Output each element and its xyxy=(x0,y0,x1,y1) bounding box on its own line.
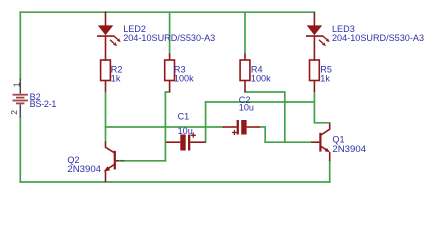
transistor Q2 (mirrored NPN) base bar xyxy=(114,151,116,170)
LED LED3 light arrows xyxy=(319,36,330,46)
wire left rail lower (battery -) xyxy=(19,118,21,183)
transistor Q1 (NPN) base bar xyxy=(319,133,321,152)
wire rail to R3 top xyxy=(169,12,171,53)
resistor R4 xyxy=(240,60,250,81)
transistor Q2 base pin xyxy=(116,160,119,162)
wire rail to R4 top xyxy=(244,12,246,53)
svg-text:100k: 100k xyxy=(174,74,194,84)
wire y=102 line to R5/Q1 collector node xyxy=(206,101,315,103)
svg-text:204-10SURD/S530-A3: 204-10SURD/S530-A3 xyxy=(332,33,424,43)
wire left rail upper (battery +) xyxy=(19,12,21,78)
wire Q2 collector node to C2 left (y=127) xyxy=(106,126,223,128)
wire Q1 emitter to GND rail xyxy=(329,161,331,182)
wire Q2 base run xyxy=(125,160,166,162)
capacitor C1 plus sign xyxy=(191,133,196,138)
wire R3 bottom jog to base vertical xyxy=(165,92,169,161)
transistor Q1 emitter path with arrow xyxy=(321,146,326,149)
LED LED2 light arrows xyxy=(110,36,121,46)
resistor R3 xyxy=(165,60,175,81)
wire R5 bottom drop to Q1 collector xyxy=(314,92,329,123)
transistor Q2 collector path xyxy=(106,142,115,153)
svg-text:BS-2-1: BS-2-1 xyxy=(30,99,57,109)
svg-text:10u: 10u xyxy=(178,126,193,136)
transistor Q2 emitter pin to rail xyxy=(105,172,107,183)
resistor R5 pins xyxy=(313,81,315,93)
svg-text:100k: 100k xyxy=(251,74,271,84)
capacitor C1 xyxy=(166,141,206,143)
transistor Q1 base pin xyxy=(311,141,319,143)
svg-text:C1: C1 xyxy=(178,112,190,122)
battery B2 pin 2 lead xyxy=(19,104,21,117)
capacitor C2 xyxy=(223,126,260,128)
svg-text:2: 2 xyxy=(9,110,19,115)
transistor Q1 emitter pin xyxy=(329,152,331,161)
wire bottom GND rail xyxy=(20,181,329,183)
svg-text:2N3904: 2N3904 xyxy=(332,144,366,155)
wire top V+ rail xyxy=(20,11,314,13)
capacitor C2 plus sign xyxy=(232,130,237,135)
wire C2 right to riser down xyxy=(260,127,266,142)
svg-text:1k: 1k xyxy=(320,74,330,84)
LED LED2 xyxy=(98,12,114,60)
resistor R2 pin bottom xyxy=(105,81,107,92)
wire C1 right riser xyxy=(205,102,207,142)
svg-text:1: 1 xyxy=(12,82,22,87)
resistor R4 pins xyxy=(244,54,246,93)
battery B2 pin 1 lead xyxy=(19,79,21,94)
LED LED3 xyxy=(307,13,323,60)
transistor Q2 emitter path with arrow xyxy=(108,164,114,168)
svg-text:10u: 10u xyxy=(239,102,254,112)
wire R2 bottom to Q2 collector xyxy=(105,92,107,142)
svg-text:1k: 1k xyxy=(111,74,121,84)
wire R4 bottom jog and drop to Q1 base line xyxy=(245,92,285,142)
wire Q1 base line xyxy=(265,141,311,143)
svg-text:2N3904: 2N3904 xyxy=(67,164,101,175)
resistor R3 pins xyxy=(169,54,171,93)
svg-text:204-10SURD/S530-A3: 204-10SURD/S530-A3 xyxy=(123,33,215,43)
resistor R5 xyxy=(310,60,320,81)
battery B2 plates xyxy=(13,95,28,104)
resistor R2 xyxy=(101,60,111,81)
transistor Q1 collector path xyxy=(321,123,330,135)
